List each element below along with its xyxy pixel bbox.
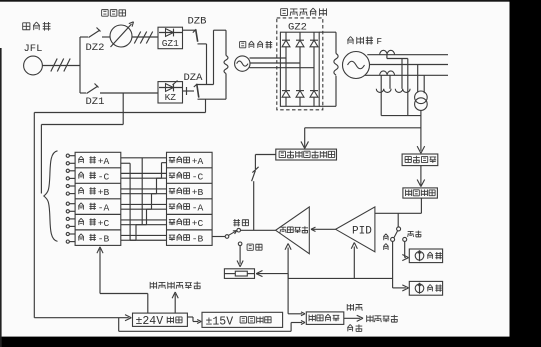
pulse row +C [78, 218, 84, 225]
setpoint box 2 (gei-ding) [409, 281, 442, 295]
wire 24V to protection arrow [174, 294, 176, 313]
generator field winding [319, 31, 336, 33]
setpoint box 1 (gei-ding) [409, 249, 442, 263]
svg-text:KZ: KZ [165, 92, 177, 103]
svg-text:+A: +A [98, 156, 110, 167]
KZ output stub [183, 90, 195, 92]
wire select feed [397, 213, 399, 226]
trigger row -A [169, 204, 175, 210]
switch blade to auto [229, 231, 236, 235]
pulse row -C [78, 172, 84, 179]
disconnect switch DZ1 [87, 86, 99, 94]
label bao-hu-hui-lu (protection circuit) [367, 315, 373, 322]
svg-text:+C: +C [98, 218, 110, 229]
switch DZA [197, 84, 199, 97]
svg-text:-C: -C [192, 171, 204, 182]
bridge leg 3 [313, 32, 315, 106]
CT on bus line 3 [380, 71, 395, 75]
svg-text:JFL: JFL [24, 43, 43, 55]
label zhu-li-ci-ji (main exciter) [240, 42, 246, 48]
wire measurement cross line [305, 127, 421, 129]
wire field return long line [34, 112, 205, 114]
wire relay output [255, 154, 275, 156]
wire right contact to setpoint 1 [404, 242, 406, 258]
right black bar [510, 0, 541, 347]
wire trigger-B to pivot [212, 236, 225, 238]
wire DZA out to field bottom [198, 98, 227, 100]
wire 24V to pulse box [147, 294, 149, 314]
input terminals [66, 154, 69, 157]
label fa-dian-ji F (generator) [347, 37, 353, 45]
CT2 secondary leads [380, 75, 382, 115]
wire DZB out [198, 43, 207, 45]
svg-text:GZ1: GZ1 [162, 38, 179, 49]
shaft coupling hatch [51, 59, 57, 72]
bus line 3 [365, 74, 448, 76]
manual setpoint box [224, 269, 254, 279]
auto contact [237, 228, 241, 232]
exciter 3-phase wires [250, 57, 287, 59]
label shou-dong (manual) [247, 244, 253, 250]
label xuan-ze (select) vertical [383, 234, 388, 240]
voltage feedback box (dian-ya-fan-kui) [403, 188, 438, 198]
pulse row -A [78, 203, 84, 210]
wire left contact to setpoint 2 [392, 242, 394, 288]
wire bus up to amplifier [287, 248, 289, 279]
svg-text:+A: +A [192, 156, 204, 167]
wire DZ2 branch [80, 36, 88, 38]
bridge leg 1 [285, 32, 287, 106]
wire bus up to PID [353, 247, 355, 279]
bottom distribution wire [118, 318, 120, 332]
15V regulated supply box [202, 312, 283, 327]
winding arcs B [395, 89, 410, 93]
svg-text:+C: +C [192, 218, 204, 229]
label gu-zhang (fault) [347, 304, 353, 311]
24V supply box [133, 313, 188, 326]
svg-text:±24V: ±24V [136, 315, 164, 328]
select contact left [391, 237, 395, 241]
controlled rectifier KZ [158, 82, 183, 103]
rectifier GZ1 [158, 27, 183, 49]
switch DZB [196, 30, 198, 42]
wire shaft JFL to bus [42, 65, 80, 67]
label xuan-zhuan-zheng-liu-qiao (rotating rectifier bridge) [281, 9, 288, 16]
trigger column [167, 152, 213, 245]
pulse row +A [78, 156, 84, 163]
wire manual down to setpoint box [239, 246, 241, 264]
svg-text:-A: -A [192, 202, 204, 213]
top black bar [0, 0, 541, 2]
svg-text:±15V: ±15V [206, 316, 234, 329]
feed bus [288, 277, 393, 279]
pilot exciter JFL [24, 56, 43, 75]
wire regulator to GZ1 with hatch [132, 36, 158, 38]
wire sync feed [40, 125, 42, 194]
bridge leg 2 [299, 32, 301, 106]
monitor output arrow [344, 317, 361, 319]
label tiao-ya-qi (voltage regulator) [102, 10, 109, 17]
trigger row +B [169, 189, 175, 195]
trigger row +C [169, 220, 175, 226]
bridge frame [280, 32, 319, 106]
manual contact [238, 242, 242, 246]
summing amplifier [276, 207, 310, 254]
generator F [343, 52, 370, 79]
svg-text:PID: PID [352, 226, 372, 238]
wire DZ1 tap down [122, 93, 124, 125]
svg-text:DZ1: DZ1 [86, 96, 105, 108]
input brace [44, 151, 58, 242]
CT on bus line 1 [380, 50, 395, 54]
svg-text:+B: +B [192, 187, 204, 198]
svg-text:-C: -C [98, 171, 110, 182]
disconnect switch DZ2 [89, 30, 101, 38]
wire down to sequence relay [304, 128, 306, 147]
label yong-ci-ji (permanent magnet machine) [23, 23, 31, 30]
wire feedback to PID line [420, 198, 422, 213]
svg-text:-A: -A [98, 202, 110, 213]
contact in relay line [252, 167, 258, 173]
label bao-hu-cao-zuo-hui-lu (protection operating circuit) [150, 282, 156, 289]
wire to exciter field top [214, 29, 227, 31]
rotating rectifier GZ2 dashed box [277, 18, 323, 110]
select blade [394, 231, 398, 238]
trigger row +A [169, 158, 175, 164]
pulse row +B [78, 187, 84, 194]
label xin-hao (signal) [347, 324, 353, 331]
wire to voltage feedback [420, 166, 422, 186]
main exciter machine [235, 56, 250, 71]
left black edge [0, 48, 2, 347]
positive sequence voltage relay box [276, 149, 337, 160]
pulse amplifier column [75, 152, 121, 245]
voltage regulator [110, 25, 132, 47]
bottom black bar [0, 337, 541, 347]
pulse-to-trigger wiring mesh [121, 157, 167, 159]
bus line 1 [367, 54, 448, 56]
svg-text:-B: -B [98, 233, 110, 244]
CT1 secondary leads [386, 55, 388, 59]
pulse row -B [78, 234, 84, 241]
power monitor box (dian-yuan-jian-shi) [306, 312, 344, 325]
svg-text:DZ2: DZ2 [86, 42, 105, 54]
wire vertical bus x80 [79, 37, 81, 93]
svg-text:DZA: DZA [184, 72, 204, 84]
select contact right [403, 237, 407, 241]
transformer taps [417, 65, 419, 93]
wire field bottom down [205, 99, 207, 112]
select contact top [397, 227, 401, 231]
wire transformer down to wufang box [420, 110, 422, 150]
wire PID to amplifier [311, 228, 336, 230]
long mesh wire [141, 158, 143, 225]
wire bus down to monitor [287, 278, 289, 313]
svg-text:F: F [376, 36, 382, 47]
link 24V to 15V [187, 316, 193, 318]
svg-text:-B: -B [192, 233, 204, 244]
label yuan-kong (remote) [408, 231, 414, 236]
wire auto to amplifier [241, 229, 276, 231]
wire DZ1 branch [80, 92, 86, 94]
exciter field winding [225, 30, 227, 55]
svg-text:DZB: DZB [188, 16, 207, 28]
trigger row -C [169, 173, 175, 179]
wire GZ1 to DZB [183, 29, 196, 31]
bus line 2 [370, 64, 449, 66]
metering transformer [415, 91, 428, 104]
svg-text:+B: +B [98, 187, 110, 198]
label zi-dong (auto) [233, 219, 240, 226]
trigger row -B [169, 235, 175, 241]
PID regulator [336, 207, 375, 252]
wire bus to manual box [256, 274, 262, 277]
winding arcs A [376, 89, 391, 93]
wire PT secondary bus [381, 115, 421, 117]
reactive compensation box (wu-gong-tiao-cha) [402, 154, 438, 166]
switch pivot [225, 235, 229, 239]
